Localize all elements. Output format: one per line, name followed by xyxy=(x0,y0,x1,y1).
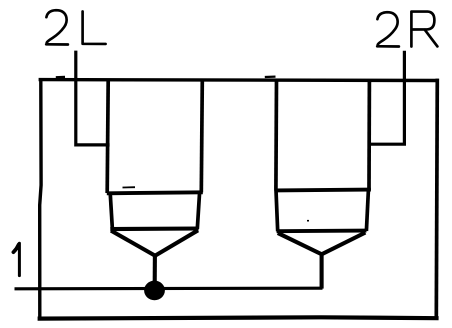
strainer R lower box right wall xyxy=(366,190,368,231)
strainer R lower box left wall xyxy=(276,190,278,231)
strainer L upper box right wall xyxy=(201,80,202,193)
strainer L lower box right wall xyxy=(197,192,199,229)
ink speck above top edge left xyxy=(56,76,65,78)
strainer L upper box left wall xyxy=(107,80,108,194)
strainer R bottom line xyxy=(277,229,367,233)
junction node dot xyxy=(144,281,165,301)
strainer R upper box left wall xyxy=(274,80,278,191)
ink speck above top edge near strainer R xyxy=(265,75,276,78)
port label 1 xyxy=(13,243,19,275)
ink speck inside strainer R xyxy=(307,220,309,222)
wire 2R branch xyxy=(370,51,405,144)
port label 2R xyxy=(377,12,437,47)
strainer L bottom line xyxy=(110,226,198,231)
tank body top edge xyxy=(39,78,439,82)
wire 2L branch xyxy=(76,51,110,145)
strainer L divider line xyxy=(107,192,203,193)
strainer R upper box right wall xyxy=(367,80,371,191)
ink speck above divider line strainer L xyxy=(123,186,136,188)
tank body right edge xyxy=(436,79,437,320)
tank body left edge xyxy=(40,78,41,320)
strainer R outlet stem xyxy=(320,254,324,289)
strainer R funnel right diagonal xyxy=(322,233,366,255)
tank body bottom edge xyxy=(38,317,439,318)
strainer L funnel right diagonal xyxy=(155,230,198,255)
strainer R divider line xyxy=(275,188,371,193)
wire port 1 bottom run xyxy=(15,287,323,291)
strainer L lower box left wall xyxy=(110,193,112,229)
strainer L funnel left diagonal xyxy=(111,231,155,256)
port label 2L xyxy=(46,10,105,44)
strainer R funnel left diagonal xyxy=(278,233,322,254)
strainer L outlet stem xyxy=(153,254,157,284)
